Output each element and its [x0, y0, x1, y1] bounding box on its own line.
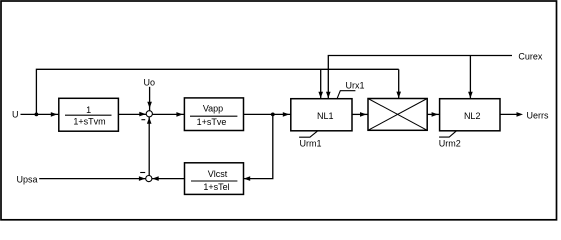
- wire U to block G1: [21, 113, 59, 115]
- wire Curex to NL1 top: [328, 56, 512, 99]
- callout Urm2 on NL2: [439, 131, 461, 149]
- wire NL1 to multiplier: [352, 113, 368, 115]
- wire drop into multiplier top: [398, 69, 400, 98]
- svg-text:1+sTel: 1+sTel: [203, 182, 229, 192]
- junction node after G2: [271, 113, 275, 117]
- minus sign at S2 left input: [140, 172, 145, 174]
- block G2 Vapp/(1+sTve): [184, 98, 243, 131]
- wire G1 to summer S1: [118, 113, 146, 115]
- wire NL2 to output: [500, 113, 517, 115]
- feedback wire from U junction along top: [36, 69, 398, 114]
- svg-text:NL2: NL2: [464, 111, 481, 121]
- wire S1 to block G2: [152, 113, 184, 115]
- svg-text:1+sTvm: 1+sTvm: [73, 116, 105, 126]
- svg-text:U: U: [12, 110, 19, 120]
- wire G2 to NL1: [244, 113, 291, 115]
- svg-text:1: 1: [86, 105, 91, 115]
- feedback wire from junction down to G3 input: [244, 114, 273, 178]
- junction on U wire: [35, 113, 39, 117]
- svg-text:1+sTve: 1+sTve: [197, 117, 227, 127]
- callout Urm1 on NL1: [299, 131, 321, 148]
- summer S2: [146, 176, 152, 182]
- svg-text:Upsa: Upsa: [17, 175, 38, 185]
- svg-text:NL1: NL1: [317, 111, 334, 121]
- svg-text:Uerrs: Uerrs: [527, 110, 549, 120]
- wire S2 up to S1: [148, 117, 150, 176]
- svg-text:Curex: Curex: [518, 52, 543, 62]
- wire multiplier to NL2: [427, 113, 439, 115]
- wire drop from Curex line into NL2 top: [469, 56, 471, 99]
- svg-text:Uo: Uo: [144, 77, 156, 87]
- summer S1: [146, 111, 152, 117]
- block NL1: [291, 99, 352, 131]
- svg-text:Urm1: Urm1: [300, 139, 322, 149]
- wire Upsa to summer S2: [39, 178, 145, 180]
- callout Urx1 on NL1: [337, 81, 364, 99]
- block G3 Vlcst/(1+sTel): [185, 163, 244, 195]
- block G1 1/(1+sTvm): [59, 98, 119, 131]
- minus sign at S1 lower input: [141, 119, 145, 121]
- multiplier block (crossed box): [368, 99, 427, 131]
- svg-text:Vapp: Vapp: [203, 103, 223, 113]
- block NL2: [440, 99, 500, 131]
- wire drop into NL1 top: [320, 69, 322, 98]
- wire G3 output to S2: [152, 178, 185, 180]
- wire Uo down to S1: [149, 87, 151, 111]
- svg-text:Urm2: Urm2: [439, 139, 461, 149]
- svg-text:Vlcst: Vlcst: [208, 169, 228, 179]
- svg-text:Urx1: Urx1: [346, 81, 365, 91]
